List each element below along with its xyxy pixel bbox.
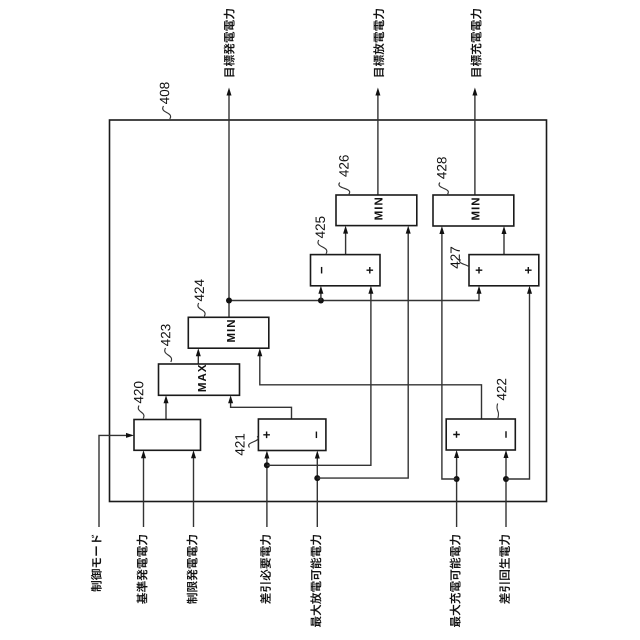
- arrowhead output 3: [472, 88, 477, 96]
- label 420: [134, 382, 144, 404]
- junction dot on output 1 wire: [226, 298, 232, 304]
- leader squiggle 426: [339, 183, 350, 195]
- arrowhead into 422 plus: [454, 450, 459, 458]
- leader squiggle 425: [318, 240, 327, 254]
- label output 目標放電電力: [373, 9, 384, 76]
- leader squiggle 421: [249, 436, 258, 447]
- leader squiggle 423: [165, 348, 172, 362]
- arrowhead into 424 left: [196, 348, 201, 356]
- junction dot on 最大放電可能電力: [314, 475, 320, 481]
- arrowhead into 421 plus: [264, 451, 269, 459]
- plus sign left in 427: [476, 267, 483, 274]
- arrowhead into 421 minus: [315, 451, 320, 459]
- label input 最大放電可能電力: [310, 535, 321, 627]
- label 422: [497, 379, 506, 401]
- leader squiggle 420: [138, 406, 144, 419]
- arrowhead into 420 left: [126, 433, 134, 438]
- arrowhead into 420 bottom-left: [141, 450, 146, 458]
- arrowhead into 424 right: [257, 348, 262, 356]
- wire branch 最大充電可能電力 to 428: [442, 234, 457, 479]
- minus sign in 421: [316, 432, 317, 439]
- arrowhead output 1: [227, 88, 232, 96]
- wire branch 差引必要電力 to 425: [267, 294, 371, 466]
- block 426 MIN: [336, 195, 417, 226]
- minus sign in 422: [505, 431, 506, 438]
- label input 差引必要電力: [260, 535, 271, 604]
- wire input 基準発電電力: [143, 458, 145, 527]
- label input 差引回生電力: [499, 535, 510, 604]
- label 427: [450, 247, 459, 269]
- wire input 制限発電電力: [193, 458, 195, 527]
- controller block 408 outline: [110, 120, 547, 502]
- text MIN in 428: [472, 198, 480, 220]
- wire MAX 423 to MIN 424: [197, 356, 199, 364]
- wire input 差引回生電力: [505, 458, 507, 527]
- label input 最大充電可能電力: [450, 535, 461, 627]
- wire branch 差引回生電力 to 427: [506, 294, 530, 480]
- wire 422 to MIN 424: [260, 356, 482, 419]
- wire output 1 (424 to top arrow): [228, 95, 230, 317]
- junction dot at 425 minus branch: [318, 298, 324, 304]
- wire input 最大放電可能電力: [316, 458, 318, 527]
- leader squiggle 428: [439, 183, 448, 195]
- arrowhead into 425 plus: [368, 286, 373, 294]
- arrowhead into 423 right: [228, 395, 233, 403]
- wire 427 to MIN 428: [503, 234, 505, 255]
- wire output 3 (428 to top arrow): [474, 95, 476, 195]
- block 428 MIN: [433, 195, 514, 226]
- arrowhead into 428 right: [502, 226, 507, 234]
- label 425: [315, 216, 325, 238]
- text MIN in 424: [227, 320, 235, 342]
- arrowhead into 427 left: [477, 286, 482, 294]
- block 423 MAX: [159, 364, 240, 395]
- arrowhead into 426 right: [406, 226, 411, 234]
- arrowhead into 425 minus: [318, 286, 323, 294]
- junction dot on 差引必要電力: [264, 462, 270, 468]
- label 408: [160, 82, 170, 104]
- block 424 MIN: [188, 317, 268, 348]
- wire 420 to MAX 423: [165, 403, 167, 420]
- wire input 制御モード: [99, 435, 127, 527]
- plus sign in 422: [453, 431, 460, 438]
- label 421: [235, 434, 244, 456]
- plus sign in 421: [263, 432, 270, 439]
- wire output 2 (426 to top arrow): [377, 95, 379, 195]
- label 424: [194, 279, 203, 301]
- block 427 (adder): [469, 255, 539, 286]
- block 425 (minus plus): [311, 255, 381, 286]
- arrowhead into 426 left: [343, 226, 348, 234]
- junction dot on 最大充電可能電力: [454, 476, 460, 482]
- arrowhead into 423 left: [164, 395, 169, 403]
- label 428: [437, 157, 447, 179]
- label 423: [161, 324, 171, 346]
- arrowhead into 422 minus: [504, 450, 509, 458]
- text MAX: [198, 365, 206, 392]
- leader squiggle 427: [460, 260, 470, 270]
- label input 制限発電電力: [187, 535, 198, 604]
- leader squiggle 424: [198, 303, 205, 316]
- label input 基準発電電力: [136, 535, 147, 604]
- block 422 (subtractor): [446, 419, 515, 450]
- block 421 (subtractor): [258, 419, 326, 451]
- wire branch 最大放電可能電力 to 426: [317, 233, 408, 478]
- wire branch up to 425 minus: [320, 294, 322, 301]
- wire 425 to MIN 426: [345, 233, 347, 254]
- minus sign in 425: [321, 267, 322, 274]
- arrowhead into 428 left: [439, 226, 444, 234]
- block 420 (mode select): [134, 420, 201, 451]
- wire input 最大充電可能電力: [456, 458, 458, 527]
- label output 目標充電電力: [471, 9, 482, 76]
- arrowhead into 427 right: [527, 286, 532, 294]
- wire 421 to MAX 423: [231, 403, 292, 419]
- leader squiggle 408: [163, 106, 171, 119]
- label input 制御モード: [91, 535, 102, 592]
- leader squiggle 422: [497, 404, 499, 419]
- wire input 差引必要電力: [266, 458, 268, 527]
- plus sign in 425: [366, 267, 373, 274]
- arrowhead into 420 bottom-right: [191, 450, 196, 458]
- label output 目標発電電力: [224, 9, 235, 76]
- junction dot on 差引回生電力: [503, 476, 509, 482]
- wire bus from 424 output to 425 and 427: [229, 294, 479, 301]
- arrowhead output 2: [375, 88, 380, 96]
- plus sign right in 427: [525, 267, 532, 274]
- text MIN in 426: [375, 198, 383, 220]
- label 426: [339, 155, 349, 177]
